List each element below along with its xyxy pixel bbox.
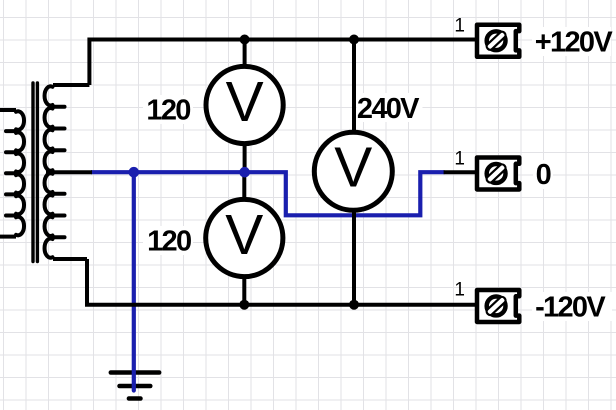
junction node: bottom rail / 240V meter [349, 300, 359, 310]
label +120V [532, 27, 611, 56]
wire: V1 bottom stub to node [243, 142, 247, 172]
wire: transformer secondary bottom stub [53, 257, 87, 261]
svg-text:1: 1 [454, 16, 465, 37]
junction node: bottom rail / V2 [239, 300, 249, 310]
label 0 [533, 160, 553, 189]
wire: transformer secondary top stub [53, 83, 89, 87]
svg-text:120: 120 [147, 225, 191, 257]
terminal +120V body [477, 25, 519, 57]
svg-text:+120V: +120V [535, 26, 614, 58]
junction node: top rail / 240V meter [349, 35, 359, 45]
transformer T1 secondary winding with center tap [45, 86, 65, 257]
wire: 240V meter bottom stub [352, 209, 356, 305]
svg-text:120: 120 [146, 94, 190, 126]
label -120V [532, 292, 612, 321]
label 240V (U3) [357, 93, 423, 122]
svg-text:1: 1 [454, 279, 465, 300]
label 120 (U1) [143, 95, 193, 124]
wire: blue drop to ground [132, 172, 136, 390]
wire: V2 bottom stub [242, 275, 246, 305]
transformer T1 primary winding [0, 110, 24, 237]
voltmeter U3 (240V) circle [314, 132, 392, 210]
svg-text:-120V: -120V [535, 292, 606, 324]
wire: 240V meter top stub [352, 40, 356, 135]
svg-text:240V: 240V [357, 93, 420, 125]
terminal 0 screw [487, 164, 506, 183]
junction node: top rail / V1 [240, 35, 250, 45]
junction node: blue net / ground drop [129, 167, 140, 178]
transformer T1 core [33, 83, 37, 262]
wire: black top rail [46, 40, 477, 305]
svg-text:1: 1 [454, 149, 465, 170]
svg-text:V: V [226, 70, 264, 134]
terminal -120V body [477, 290, 519, 322]
voltmeter U2 (120) circle [206, 199, 283, 276]
terminal -120V screw [487, 297, 506, 316]
label 120 (U2) [143, 226, 193, 255]
voltmeter U1 (120) circle [206, 66, 283, 143]
svg-text:V: V [225, 203, 263, 267]
terminal +120V screw [487, 31, 506, 50]
junction node: blue net / V1-V2 [239, 167, 250, 178]
wire: blue neutral net (center tap to terminal 0) [91, 172, 445, 390]
wire: center tap black stub [46, 170, 92, 174]
svg-text:0: 0 [536, 159, 551, 191]
wire: middle terminal black stub [444, 170, 477, 174]
terminal 0 body [477, 157, 519, 189]
wire: black bottom rail [87, 259, 477, 305]
ground (earth) bars [111, 373, 159, 399]
svg-text:V: V [334, 135, 372, 199]
wire: V2 top stub [242, 172, 246, 201]
wire: V1 top stub [243, 40, 247, 69]
